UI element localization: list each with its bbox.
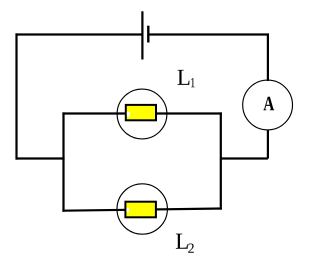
label L1 subscript 1 bbox=[191, 78, 195, 87]
lamp L2 circle bbox=[117, 184, 167, 234]
label L2 subscript 2 bbox=[188, 244, 194, 253]
ammeter label A bbox=[263, 97, 274, 111]
wire: right junction horizontal to right rail bbox=[220, 157, 268, 159]
wire: bottom branch through lamp L2 bbox=[62, 209, 222, 211]
lamp L1 circle bbox=[117, 89, 167, 139]
wire: ammeter bottom down to right junction bbox=[267, 130, 269, 159]
lamp L1 filament box bbox=[126, 105, 156, 120]
wire: left junction horizontal from outer loop to left rail bbox=[16, 157, 65, 159]
lamp L2 filament box bbox=[125, 202, 155, 218]
wire: right rail of parallel section bbox=[220, 112, 222, 209]
wire: outer left vertical bbox=[15, 33, 17, 159]
ammeter U1 circle bbox=[243, 80, 293, 130]
label L2 letter L bbox=[176, 234, 188, 249]
lamp L2 notch bbox=[127, 208, 130, 213]
wire: top-left from left rail to battery positive plate bbox=[16, 33, 142, 35]
wire: battery negative to top-right corner and down to ammeter bbox=[149, 35, 268, 82]
label L1 letter L bbox=[177, 70, 189, 85]
wire: top branch through lamp L1 bbox=[62, 112, 222, 114]
lamp L1 notch bbox=[127, 112, 130, 117]
battery long plate (positive) bbox=[141, 11, 143, 59]
wire: left rail of parallel section bbox=[62, 112, 64, 211]
battery short plate (negative) bbox=[147, 26, 149, 43]
